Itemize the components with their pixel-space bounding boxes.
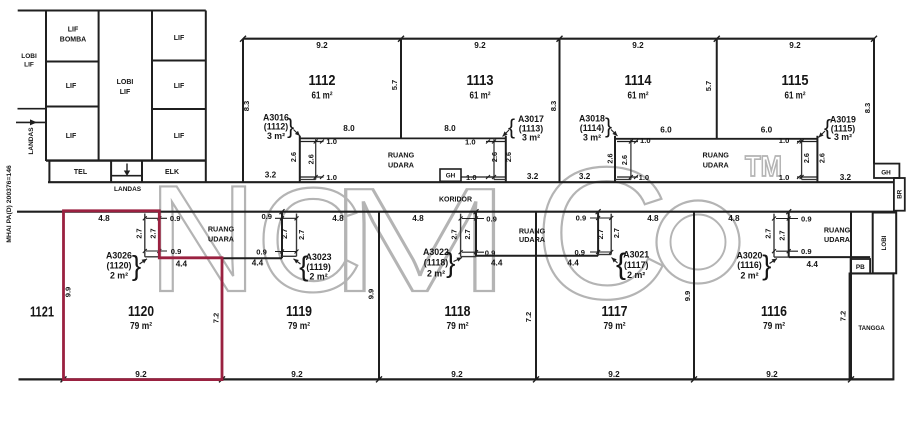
svg-text:LOBI: LOBI	[881, 235, 888, 250]
svg-text:3.2: 3.2	[579, 172, 591, 181]
svg-text:2.7: 2.7	[149, 228, 158, 238]
svg-text:2.6: 2.6	[620, 155, 629, 165]
svg-text:0.9: 0.9	[485, 248, 496, 257]
svg-text:9.2: 9.2	[451, 370, 463, 379]
svg-text:2.6: 2.6	[504, 152, 513, 162]
svg-text:79 m²: 79 m²	[604, 321, 627, 332]
svg-text:1115: 1115	[782, 72, 809, 89]
svg-text:{: {	[616, 248, 626, 281]
svg-text:MHAl PA(D) 200376=146: MHAl PA(D) 200376=146	[6, 165, 13, 243]
svg-text:UDARA: UDARA	[703, 161, 729, 170]
svg-text:1114: 1114	[625, 72, 653, 89]
svg-text:UDARA: UDARA	[824, 235, 850, 244]
svg-text:3 m²: 3 m²	[522, 133, 540, 143]
svg-text:LIF: LIF	[120, 89, 131, 96]
svg-text:}: }	[762, 249, 771, 280]
svg-text:1.0: 1.0	[326, 137, 337, 146]
svg-text:LIF: LIF	[174, 133, 185, 140]
svg-text:2.6: 2.6	[606, 153, 615, 163]
svg-text:8.0: 8.0	[343, 124, 355, 133]
svg-text:LIF: LIF	[24, 62, 34, 69]
svg-text:2.7: 2.7	[596, 229, 605, 239]
svg-text:A3017: A3017	[518, 114, 544, 124]
svg-text:{: {	[824, 116, 831, 139]
svg-text:1.0: 1.0	[465, 138, 476, 147]
svg-text:UDARA: UDARA	[208, 235, 234, 244]
svg-text:1.0: 1.0	[779, 173, 790, 182]
svg-text:8.3: 8.3	[549, 101, 558, 112]
svg-text:9.9: 9.9	[683, 291, 692, 302]
svg-text:PB: PB	[856, 264, 865, 271]
svg-text:79 m²: 79 m²	[130, 321, 153, 332]
svg-text:2.6: 2.6	[818, 153, 827, 163]
svg-text:RUANG: RUANG	[208, 225, 235, 234]
svg-text:2.6: 2.6	[289, 152, 298, 162]
svg-text:LIF: LIF	[174, 35, 185, 42]
svg-text:2.7: 2.7	[612, 228, 621, 238]
svg-text:0.9: 0.9	[261, 212, 272, 221]
svg-text:TM: TM	[745, 151, 782, 183]
svg-text:61 m²: 61 m²	[785, 91, 807, 102]
svg-text:A3021: A3021	[623, 250, 649, 260]
svg-text:}: }	[132, 250, 141, 281]
svg-text:RUANG: RUANG	[703, 151, 730, 160]
svg-text:0.9: 0.9	[486, 214, 497, 223]
svg-text:4.8: 4.8	[647, 214, 659, 223]
svg-text:8.3: 8.3	[863, 103, 872, 114]
svg-text:2.7: 2.7	[450, 229, 459, 239]
svg-text:BOMBA: BOMBA	[60, 37, 86, 44]
svg-text:2.6: 2.6	[490, 152, 499, 162]
svg-text:(1116): (1116)	[737, 260, 762, 270]
svg-text:6.0: 6.0	[761, 126, 773, 135]
svg-text:1112: 1112	[309, 72, 336, 89]
svg-text:8.0: 8.0	[444, 124, 456, 133]
svg-text:}: }	[446, 247, 455, 278]
svg-text:0.9: 0.9	[171, 247, 182, 256]
svg-text:0.9: 0.9	[256, 248, 267, 257]
svg-text:1117: 1117	[602, 304, 628, 320]
svg-text:3.2: 3.2	[527, 172, 539, 181]
svg-text:3.2: 3.2	[840, 173, 852, 182]
svg-text:LANDAS: LANDAS	[114, 186, 142, 193]
svg-text:1.0: 1.0	[466, 173, 477, 182]
svg-text:KORIDOR: KORIDOR	[439, 197, 472, 204]
svg-text:LOBI: LOBI	[117, 79, 134, 86]
svg-text:4.8: 4.8	[98, 214, 110, 223]
svg-text:1120: 1120	[128, 304, 154, 320]
svg-text:61 m²: 61 m²	[628, 91, 650, 102]
svg-text:2 m²: 2 m²	[427, 269, 445, 279]
svg-text:TANGGA: TANGGA	[858, 325, 885, 332]
svg-text:1.0: 1.0	[640, 136, 651, 145]
svg-text:UDARA: UDARA	[519, 235, 545, 244]
svg-text:RUANG: RUANG	[388, 151, 415, 160]
svg-text:2.7: 2.7	[463, 229, 472, 239]
svg-text:(1114): (1114)	[580, 123, 605, 133]
svg-text:2 m²: 2 m²	[740, 271, 758, 281]
svg-text:2.7: 2.7	[297, 230, 306, 240]
svg-text:4.4: 4.4	[491, 259, 503, 268]
svg-text:4.4: 4.4	[567, 259, 579, 268]
svg-text:A3023: A3023	[306, 252, 332, 262]
svg-text:LIF: LIF	[66, 133, 77, 140]
svg-text:9.2: 9.2	[766, 370, 778, 379]
svg-text:{: {	[508, 116, 515, 139]
svg-text:LANDAS: LANDAS	[28, 127, 35, 155]
svg-text:4.8: 4.8	[332, 214, 344, 223]
svg-text:LIF: LIF	[66, 83, 77, 90]
svg-text:{: {	[299, 250, 308, 281]
svg-text:2 m²: 2 m²	[310, 272, 328, 282]
svg-text:8.3: 8.3	[242, 101, 251, 112]
svg-text:79 m²: 79 m²	[763, 321, 786, 332]
svg-text:1121: 1121	[30, 303, 54, 320]
svg-text:79 m²: 79 m²	[447, 321, 470, 332]
svg-text:UDARA: UDARA	[388, 161, 414, 170]
svg-text:2.6: 2.6	[802, 153, 811, 163]
svg-text:1116: 1116	[761, 304, 787, 320]
svg-text:2.6: 2.6	[306, 154, 315, 164]
svg-text:ELK: ELK	[165, 169, 179, 176]
svg-text:(1119): (1119)	[306, 262, 331, 272]
svg-text:LOBI: LOBI	[21, 53, 37, 60]
svg-text:9.2: 9.2	[135, 370, 147, 379]
svg-text:0.9: 0.9	[801, 247, 812, 256]
svg-text:1118: 1118	[445, 304, 471, 320]
svg-text:3 m²: 3 m²	[834, 132, 852, 142]
svg-text:9.2: 9.2	[291, 370, 303, 379]
svg-text:(1118): (1118)	[424, 258, 449, 268]
svg-text:RUANG: RUANG	[824, 226, 851, 235]
svg-text:2.7: 2.7	[280, 229, 289, 239]
svg-text:A3020: A3020	[737, 251, 763, 261]
svg-text:N: N	[148, 154, 258, 324]
svg-text:0.9: 0.9	[801, 214, 812, 223]
svg-text:LIF: LIF	[68, 27, 79, 34]
svg-text:61 m²: 61 m²	[312, 91, 334, 102]
svg-text:0.9: 0.9	[170, 214, 181, 223]
svg-text:(1120): (1120)	[107, 261, 132, 271]
svg-text:9.2: 9.2	[474, 41, 486, 50]
svg-text:2.7: 2.7	[763, 229, 772, 239]
svg-text:61 m²: 61 m²	[470, 91, 492, 102]
svg-text:4.4: 4.4	[252, 259, 264, 268]
svg-text:9.2: 9.2	[316, 41, 328, 50]
svg-text:4.8: 4.8	[412, 214, 424, 223]
svg-text:9.2: 9.2	[789, 41, 801, 50]
svg-text:TEL: TEL	[74, 169, 88, 176]
svg-text:0.9: 0.9	[574, 248, 585, 257]
svg-text:2 m²: 2 m²	[110, 271, 128, 281]
svg-text:6.0: 6.0	[660, 126, 672, 135]
svg-text:1.0: 1.0	[326, 173, 337, 182]
svg-text:2 m²: 2 m²	[627, 270, 645, 280]
svg-text:0.9: 0.9	[576, 213, 587, 222]
svg-text:9.2: 9.2	[608, 370, 620, 379]
svg-text:4.4: 4.4	[176, 259, 188, 268]
svg-text:5.7: 5.7	[704, 81, 713, 92]
svg-text:7.2: 7.2	[839, 311, 848, 322]
svg-text:A3018: A3018	[579, 114, 605, 124]
svg-text:9.9: 9.9	[367, 289, 376, 300]
svg-text:3 m²: 3 m²	[267, 131, 285, 141]
svg-text:GH: GH	[881, 170, 891, 177]
svg-text:1.0: 1.0	[779, 136, 790, 145]
svg-text:2.7: 2.7	[135, 228, 144, 238]
svg-text:79 m²: 79 m²	[288, 321, 311, 332]
svg-text:1113: 1113	[467, 72, 494, 89]
svg-text:LIF: LIF	[174, 83, 185, 90]
svg-text:}: }	[605, 115, 612, 138]
svg-text:GH: GH	[446, 173, 456, 180]
svg-text:4.8: 4.8	[728, 214, 740, 223]
svg-text:1.0: 1.0	[639, 173, 650, 182]
svg-text:(1117): (1117)	[624, 260, 649, 270]
svg-text:}: }	[287, 116, 294, 139]
svg-text:2.7: 2.7	[778, 230, 787, 240]
svg-text:9.2: 9.2	[632, 41, 644, 50]
svg-text:BR: BR	[896, 189, 903, 198]
svg-text:3.2: 3.2	[265, 171, 277, 180]
svg-text:5.7: 5.7	[390, 80, 399, 91]
svg-text:7.2: 7.2	[212, 313, 221, 324]
svg-text:A3026: A3026	[106, 251, 132, 261]
svg-text:3 m²: 3 m²	[583, 133, 601, 143]
svg-text:A3022: A3022	[423, 247, 449, 257]
svg-text:4.4: 4.4	[807, 260, 819, 269]
svg-text:7.2: 7.2	[524, 312, 533, 323]
svg-text:1119: 1119	[286, 304, 312, 320]
